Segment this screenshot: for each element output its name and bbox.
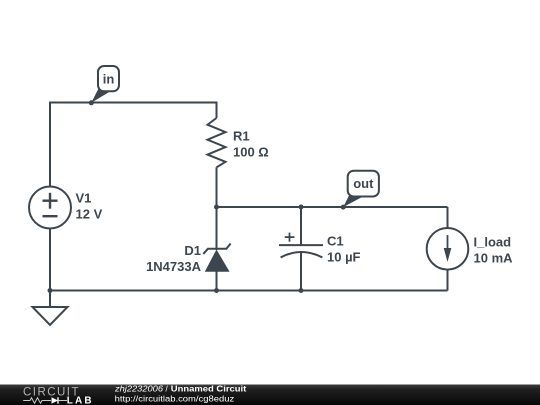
junction dot C1 top	[299, 205, 304, 210]
current source I_load arrow	[447, 235, 449, 253]
svg-text:1N4733A: 1N4733A	[146, 259, 202, 274]
footer logo schematic line with resistor	[23, 398, 51, 403]
node out flag tail	[343, 195, 363, 208]
diode D1 triangle	[206, 251, 229, 272]
diode D1 bottom lead	[216, 271, 218, 290]
svg-text:in: in	[103, 72, 115, 87]
svg-text:12 V: 12 V	[76, 207, 103, 222]
footer bar	[0, 385, 540, 405]
node in flag tail	[91, 89, 110, 103]
current source I_load circle	[427, 228, 469, 270]
svg-text:V1: V1	[76, 191, 92, 206]
svg-text:D1: D1	[184, 243, 201, 258]
footer logo diode	[52, 397, 59, 403]
diode D1 top lead	[216, 207, 218, 250]
wire mid net: R1 bottom to I_load top	[217, 206, 448, 208]
wire V1 bottom to ground junction	[49, 229, 51, 291]
junction dot R1/D1/mid	[214, 205, 219, 210]
capacitor C1 top lead	[300, 207, 302, 245]
wire junction to ground symbol	[49, 291, 51, 308]
diode D1 zener cathode bar	[203, 244, 230, 254]
junction dot C1 bottom	[299, 288, 304, 293]
svg-text:C1: C1	[327, 234, 344, 249]
node out junction dot	[341, 205, 346, 210]
capacitor C1 top plate	[279, 244, 323, 246]
wire top net: V1 top to R1 top	[50, 103, 217, 187]
voltage source V1 circle	[29, 187, 71, 229]
svg-text:http://circuitlab.com/cg8eduz: http://circuitlab.com/cg8eduz	[115, 395, 235, 404]
current source I_load top lead	[447, 207, 449, 228]
svg-text:10 µF: 10 µF	[327, 250, 361, 265]
wire bottom net	[50, 290, 448, 292]
svg-text:zhj2232006: zhj2232006	[114, 384, 164, 393]
capacitor C1 bottom plate arc	[281, 252, 323, 258]
node in junction dot	[89, 100, 94, 105]
voltage source V1 minus sign	[43, 215, 58, 217]
voltage source V1 plus sign	[43, 193, 58, 209]
svg-text:Unnamed Circuit: Unnamed Circuit	[171, 384, 247, 393]
capacitor C1 plus sign	[285, 233, 295, 242]
resistor R1 bottom lead	[216, 167, 218, 207]
svg-text:out: out	[353, 176, 374, 191]
resistor R1 zigzag	[208, 118, 226, 167]
svg-text:R1: R1	[233, 129, 250, 144]
node in flag box	[98, 66, 119, 91]
svg-text:I_load: I_load	[474, 235, 512, 250]
svg-text:10 mA: 10 mA	[474, 251, 514, 266]
current source I_load bottom lead	[447, 270, 449, 291]
capacitor C1 bottom lead	[300, 252, 302, 291]
ground symbol	[33, 307, 68, 325]
junction dot ground node	[48, 288, 53, 293]
svg-text:100 Ω: 100 Ω	[233, 145, 269, 160]
svg-text:LAB: LAB	[67, 396, 92, 405]
node out flag box	[348, 171, 379, 197]
junction dot D1 bottom	[214, 288, 219, 293]
